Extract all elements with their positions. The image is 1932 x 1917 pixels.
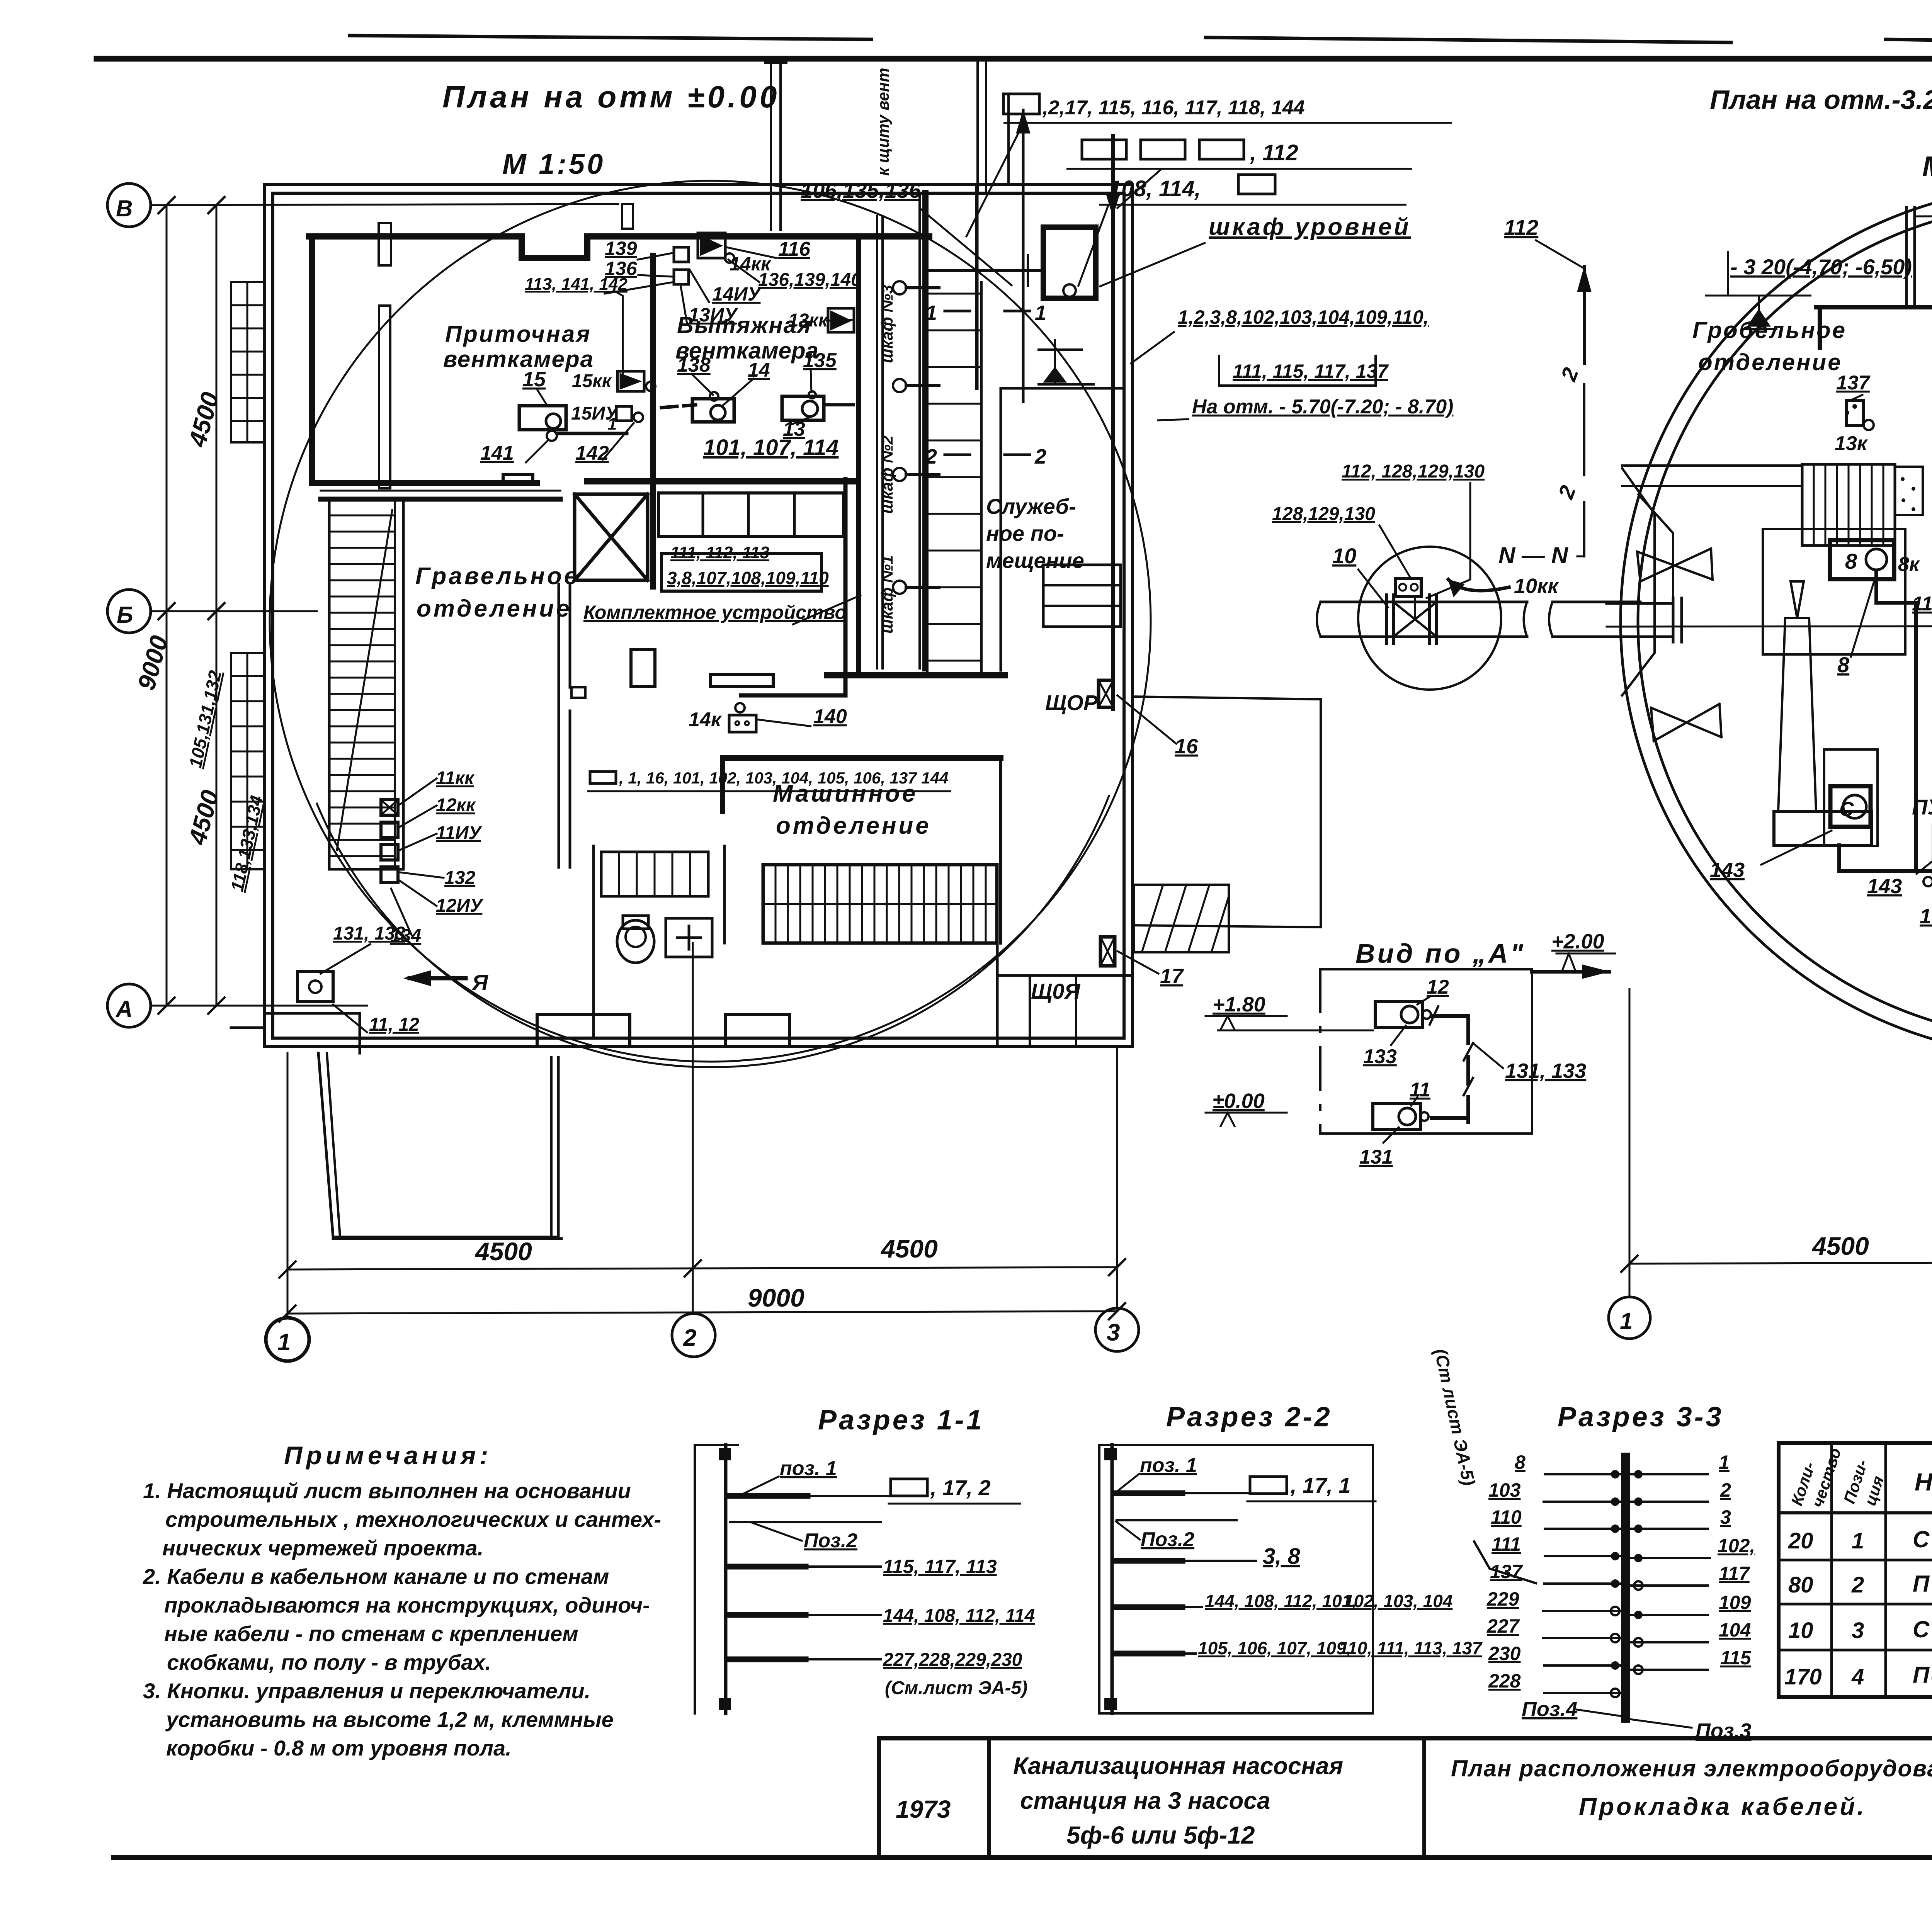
leader 131,133 [1473, 1043, 1503, 1068]
svg-text:+1.80: +1.80 [1213, 993, 1265, 1016]
svg-text:13кк: 13кк [788, 310, 829, 331]
svg-text:11кк: 11кк [436, 768, 475, 789]
svg-text:112: 112 [1504, 215, 1538, 240]
svg-text:Я: Я [471, 970, 488, 994]
svg-text:3. Кнопки. управления и перек: 3. Кнопки. управления и переключатели. [143, 1679, 590, 1703]
machine hall right wall [999, 758, 1002, 943]
svg-text:Полка: Полка [1913, 1571, 1932, 1597]
svg-text:110: 110 [1491, 1506, 1522, 1528]
svg-text:строительных , технологических: строительных , технологических и сантех- [165, 1507, 661, 1531]
lower device box view A [1373, 1103, 1420, 1130]
wall stub right of X opening [650, 479, 656, 586]
right plan outer ring [1621, 185, 1932, 1057]
svg-text:115: 115 [1720, 1647, 1752, 1669]
sink with cross [666, 918, 712, 957]
section mark 2-2 [945, 454, 970, 456]
svg-text:1: 1 [1620, 1308, 1633, 1334]
svg-text:11, 12: 11, 12 [369, 1015, 419, 1035]
svg-text:15кк: 15кк [572, 371, 612, 391]
switchgear cell band [658, 493, 844, 537]
axis line Б left [151, 610, 317, 612]
device 13К right plan [1847, 400, 1864, 425]
underground tank circle overlay [270, 181, 1151, 1062]
left plan outer wall [264, 185, 1133, 1047]
underground tank inner ring arc [317, 796, 1109, 1067]
svg-text:2: 2 [1720, 1479, 1731, 1501]
column circle 2 left plan [672, 1314, 715, 1357]
leaders top cluster [638, 253, 672, 260]
svg-text:1: 1 [925, 301, 937, 325]
X-braced opening [575, 494, 648, 580]
svg-text:131: 131 [1359, 1146, 1393, 1168]
leader 16 to ЩОР [1117, 695, 1176, 744]
machine hall top wall [723, 758, 1001, 811]
section 2-2 walls [1098, 1445, 1100, 1713]
leaders left cluster [400, 778, 437, 804]
axis line В across right plan [1917, 215, 1932, 216]
svg-text:2: 2 [925, 445, 937, 468]
svg-text:N — N: N — N [1498, 542, 1569, 568]
svg-text:,2,17, 115, 116, 117, 118, 144: ,2,17, 115, 116, 117, 118, 144 [1042, 97, 1305, 119]
svg-text:4500: 4500 [1811, 1232, 1869, 1260]
svg-text:Приточная: Приточная [445, 321, 592, 347]
panel ЩОЯ [1100, 937, 1115, 966]
pipe walls right segment [1553, 602, 1640, 637]
inlet channel right plan [1622, 466, 1802, 486]
svg-text:14к: 14к [689, 709, 722, 731]
svg-text:110: 110 [1912, 593, 1932, 615]
cable from 8 [1876, 571, 1916, 871]
svg-text:116: 116 [778, 238, 811, 260]
device boxes on left wall cluster [381, 800, 398, 815]
section mark 1-1 [945, 310, 970, 313]
left lines 3-3 [1543, 1474, 1620, 1693]
svg-text:шкаф №3: шкаф №3 [878, 285, 896, 363]
svg-text:Стойка: Стойка [1913, 1616, 1932, 1642]
svg-text:109: 109 [1719, 1592, 1751, 1613]
svg-text:15: 15 [522, 368, 546, 391]
title block frame [879, 1736, 1932, 1740]
leaders 143 [1761, 831, 1832, 865]
leader 131 [1383, 1127, 1399, 1143]
svg-text:102, 103, 104: 102, 103, 104 [1344, 1591, 1452, 1611]
svg-text:Разрез 2-2: Разрез 2-2 [1166, 1402, 1332, 1433]
svg-text:138: 138 [677, 354, 711, 376]
svg-text:142: 142 [575, 442, 609, 464]
box symbol 2-2 [1250, 1477, 1287, 1494]
svg-text:131, 133: 131, 133 [333, 923, 405, 944]
cable from C [1839, 845, 1932, 871]
svg-text:Поз.2: Поз.2 [804, 1530, 857, 1552]
bottom cable list with box symbol [587, 772, 951, 791]
svg-text:ПУР: ПУР [1912, 795, 1932, 819]
leaders to valve detail [1379, 525, 1410, 576]
svg-text:111: 111 [1492, 1533, 1521, 1555]
0.00 level mark [1206, 1112, 1287, 1114]
corner device box 131,133 [298, 972, 333, 1002]
svg-text:Б: Б [117, 602, 133, 628]
axis circle А left [107, 984, 151, 1027]
svg-text:Поз.2: Поз.2 [1141, 1528, 1194, 1551]
svg-text:8: 8 [1837, 653, 1850, 677]
svg-text:113, 141, 142: 113, 141, 142 [525, 275, 628, 294]
table row lines [1779, 1511, 1932, 1514]
svg-text:103: 103 [1488, 1479, 1521, 1501]
svg-text:1. Настоящий лист выполнен: 1. Настоящий лист выполнен на основании [143, 1479, 631, 1503]
cabinet corridor wall [922, 193, 929, 668]
svg-text:140: 140 [813, 705, 847, 728]
svg-text:135: 135 [803, 349, 837, 372]
cable from unit 15 [558, 432, 627, 435]
svg-text:1: 1 [1852, 1528, 1864, 1553]
exhaust vent room right wall [856, 236, 861, 672]
svg-text:нических чертежей проекта.: нических чертежей проекта. [162, 1536, 483, 1560]
+1.80 level mark [1206, 1015, 1287, 1017]
svg-text:133: 133 [1363, 1045, 1397, 1068]
svg-text:шкаф №1: шкаф №1 [878, 555, 896, 634]
svg-text:1: 1 [1719, 1451, 1730, 1473]
svg-text:2: 2 [1034, 445, 1046, 468]
svg-text:112, 128,129,130: 112, 128,129,130 [1342, 461, 1485, 482]
svg-text:М 1:50: М 1:50 [1922, 151, 1932, 182]
leader 133 [1391, 1026, 1406, 1045]
fan unit 135 exhaust room [782, 396, 824, 420]
dim line 4500/4500 bottom right plan [1629, 1261, 1932, 1264]
pipe detail circle N-N [1358, 547, 1501, 690]
leaders vent room 1 [537, 389, 547, 405]
svg-text:3: 3 [1107, 1319, 1120, 1346]
svg-text:101, 107, 114: 101, 107, 114 [703, 435, 838, 460]
svg-text:Канализационная насосная: Канализационная насосная [1013, 1753, 1343, 1779]
comb shelf column right of corridor [926, 286, 929, 672]
riser pair x2000 above plan [765, 63, 786, 230]
svg-text:1973: 1973 [896, 1795, 951, 1823]
device small squares 14ИУ 13ИУ [674, 247, 689, 262]
three cable duct symbols [1066, 140, 1412, 169]
staircase gravel room [321, 490, 560, 492]
svg-text:1: 1 [607, 415, 617, 433]
table column lines [1832, 1443, 1932, 1697]
svg-text:2. Кабели в кабельном канале: 2. Кабели в кабельном канале и по стенам [143, 1564, 609, 1589]
equipment 8 box [1830, 540, 1894, 579]
door jamb stub [571, 687, 585, 698]
svg-text:144, 108, 112, 114: 144, 108, 112, 114 [883, 1606, 1035, 1626]
svg-text:8: 8 [1845, 549, 1857, 573]
cabinet corridor inner line [876, 216, 878, 668]
svg-text:Разрез 3-3: Разрез 3-3 [1558, 1402, 1724, 1433]
svg-text:Щ0Я: Щ0Я [1031, 979, 1081, 1003]
svg-text:80: 80 [1788, 1572, 1813, 1597]
section 3-3 central bar [1621, 1457, 1630, 1718]
svg-text:229: 229 [1486, 1588, 1519, 1610]
svg-text:4500: 4500 [474, 1237, 532, 1266]
fan unit 15 [519, 406, 566, 430]
duct pilaster in supply vent room [379, 223, 391, 265]
svg-text:План на отм.-3.20(-4.70;-6.2: План на отм.-3.20(-4.70;-6.20) и -5.70(-… [1710, 85, 1932, 115]
dim line 9000 bottom left plan [287, 1311, 1117, 1314]
svg-text:132: 132 [444, 868, 475, 888]
svg-text:9000: 9000 [748, 1283, 804, 1312]
svg-text:В: В [116, 195, 133, 221]
ventilation rooms bottom wall [312, 480, 537, 486]
svg-text:венткамера: венткамера [443, 346, 594, 372]
section cut line 1 vertical with arrow [1022, 110, 1025, 402]
svg-text:Поз.4: Поз.4 [1522, 1698, 1577, 1721]
svg-text:ЩОР: ЩОР [1045, 690, 1098, 715]
svg-text:227: 227 [1486, 1615, 1520, 1637]
dashed cable in exhaust room [662, 405, 696, 408]
svg-text:105, 106, 107, 109,: 105, 106, 107, 109, [1198, 1638, 1351, 1658]
service room wall [1000, 388, 1002, 670]
axis line А left [151, 1005, 367, 1007]
svg-text:104: 104 [1719, 1619, 1751, 1641]
svg-text:4500: 4500 [880, 1234, 938, 1263]
view direction arrow Я [410, 976, 466, 981]
svg-text:103: 103 [1920, 905, 1932, 928]
hatched walkway east [1134, 885, 1229, 952]
svg-text:230: 230 [1488, 1643, 1521, 1664]
axis circle В left [107, 184, 151, 227]
wide staircase machine hall [763, 865, 997, 943]
svg-text:Гравельное: Гравельное [415, 563, 580, 590]
switchgear lower box [662, 553, 821, 591]
svg-text:Стойка: Стойка [1913, 1526, 1932, 1552]
svg-text:2: 2 [683, 1325, 696, 1351]
panel ЩОР [1099, 680, 1113, 707]
svg-text:1,2,3,8,102,103,104,109,110,: 1,2,3,8,102,103,104,109,110, [1178, 306, 1429, 328]
svg-text:3: 3 [1852, 1618, 1864, 1643]
svg-text:4: 4 [1851, 1664, 1864, 1689]
svg-text:12кк: 12кк [436, 795, 476, 816]
svg-text:17: 17 [1160, 965, 1184, 988]
svg-text:137: 137 [1490, 1561, 1523, 1582]
device 15КК symbol [617, 371, 644, 391]
pipe flanges [1386, 595, 1437, 644]
svg-text:227,228,229,230: 227,228,229,230 [883, 1650, 1022, 1670]
dotted plate next to grate [1895, 467, 1923, 515]
svg-text:Комплектное устройство: Комплектное устройство [583, 602, 847, 623]
pipe walls left segment [1321, 602, 1527, 637]
section 1-1 cable rows [730, 1493, 808, 1499]
svg-text:11: 11 [1410, 1079, 1430, 1101]
svg-text:2: 2 [1851, 1572, 1864, 1597]
section 1-1 wall [694, 1445, 696, 1713]
svg-text:поз. 1: поз. 1 [1140, 1454, 1197, 1477]
svg-text:На отм. - 5.70(-7.20; - 8.70): На отм. - 5.70(-7.20; - 8.70) [1192, 396, 1453, 418]
fan unit 138 exhaust room [692, 399, 734, 422]
top cable bundle symbol box [1003, 94, 1452, 123]
curved arrow 10КК [1448, 580, 1509, 591]
column circle 3 left plan [1095, 1308, 1139, 1351]
leaders поз 2-2 [1115, 1474, 1139, 1493]
svg-text:115, 117, 113: 115, 117, 113 [883, 1556, 997, 1577]
device 14КК symbol top [698, 233, 725, 258]
svg-text:108, 114,: 108, 114, [1109, 176, 1201, 201]
svg-text:ное по-: ное по- [986, 521, 1064, 546]
svg-text:к щиту вент: к щиту вент [874, 68, 892, 176]
box symbol row A [891, 1479, 927, 1496]
cable run bottom corridor [739, 477, 845, 695]
svg-text:143: 143 [1710, 858, 1745, 882]
svg-text:Подвеска закладная: Подвеска закладная [1913, 1662, 1932, 1688]
sheet frame: top border [97, 56, 1932, 62]
svg-text:скобками, по полу - в трубах: скобками, по полу - в трубах. [167, 1650, 491, 1674]
wall between supply and exhaust vent rooms [650, 256, 656, 483]
svg-text:13ИУ: 13ИУ [689, 304, 739, 326]
svg-text:16: 16 [1175, 735, 1198, 758]
svg-text:отделение: отделение [1698, 349, 1842, 375]
annex rectangle east of plan [1133, 697, 1321, 927]
svg-text:12ИУ: 12ИУ [436, 896, 484, 916]
leader 12 [1417, 997, 1430, 1004]
svg-text:1: 1 [277, 1329, 291, 1356]
X brace lower [1651, 704, 1721, 741]
pit below building [318, 1053, 558, 1237]
svg-text:План расположения электрообо: План расположения электрооборудования. [1451, 1756, 1932, 1781]
svg-text:, 17, 1: , 17, 1 [1290, 1473, 1351, 1497]
svg-text:136,139,140: 136,139,140 [758, 270, 861, 290]
dimension line 9000 vertical [166, 205, 168, 1006]
pipe entry left of circle at N-N level [1607, 603, 1673, 637]
leaders from top labels into plan [919, 124, 1206, 287]
svg-text:111, 115, 117, 137: 111, 115, 117, 137 [1233, 360, 1389, 382]
svg-text:8к: 8к [1898, 553, 1920, 576]
service room upper-left wall [975, 185, 979, 388]
device 15ИУ symbol [616, 406, 632, 421]
svg-text:Вид по „А": Вид по „А" [1355, 938, 1526, 969]
equipment C group [1824, 749, 1878, 846]
svg-text:Наименование: Наименование [1915, 1468, 1932, 1496]
svg-text:ные кабели - по стенам с кр: ные кабели - по стенам с креплением [164, 1621, 578, 1646]
wall notches at bottom wall [537, 1015, 630, 1047]
svg-text:поз. 1: поз. 1 [780, 1457, 837, 1480]
column circle 1 left plan [266, 1318, 309, 1361]
section 2-2 cable rows [1117, 1490, 1182, 1496]
bracket leader from rotated note [1474, 1541, 1536, 1583]
svg-text:(См.лист ЭА-5): (См.лист ЭА-5) [885, 1678, 1027, 1698]
svg-text:3, 8: 3, 8 [1263, 1544, 1300, 1569]
svg-text:Примечания:: Примечания: [284, 1441, 492, 1470]
leaders поз [739, 1477, 779, 1496]
svg-text:14: 14 [748, 359, 770, 381]
ventilation rooms top wall with notch [309, 236, 929, 258]
dimension line 4500/4500 vertical [216, 205, 218, 1006]
svg-text:143: 143 [1867, 875, 1902, 898]
svg-text:Прокладка кабелей.: Прокладка кабелей. [1579, 1793, 1866, 1820]
svg-text:137: 137 [1836, 372, 1871, 394]
svg-text:110, 111, 113, 137: 110, 111, 113, 137 [1339, 1638, 1483, 1658]
X brace upper [1637, 549, 1713, 581]
small cabinet rects switchgear area [631, 649, 773, 687]
svg-text:144, 108, 112, 101,: 144, 108, 112, 101, [1205, 1591, 1357, 1611]
left plan bottom axis lines [266, 943, 1139, 1361]
ventilation rooms left wall [309, 236, 315, 483]
right plan bottom axis verticals [1609, 989, 1932, 1340]
grate box hatched [1802, 464, 1895, 546]
svg-text:11ИУ: 11ИУ [436, 823, 482, 843]
leaders exhaust room [692, 374, 713, 395]
small stair near WC [601, 852, 708, 896]
leader 17 to ЩОЯ [1117, 951, 1158, 974]
service room stair [1043, 565, 1121, 627]
svg-text:10: 10 [1788, 1618, 1813, 1643]
axis line В left [151, 204, 618, 205]
dim line 4500/4500 bottom left plan [287, 1267, 1117, 1270]
ladder hatch band outside left wall upper [231, 282, 264, 442]
upper chamber wall [1816, 305, 1932, 309]
svg-text:111, 112, 113: 111, 112, 113 [670, 543, 769, 562]
svg-text:106,135,136: 106,135,136 [801, 178, 921, 202]
svg-text:М 1:50: М 1:50 [502, 148, 605, 180]
bottom right rooms [996, 943, 999, 1047]
elevation mark +0.600 [1054, 340, 1056, 382]
right lines 3-3 [1631, 1474, 1710, 1670]
svg-text:прокладываются на конструкци: прокладываются на конструкциях, одиноч- [164, 1593, 650, 1617]
trash cone [1791, 581, 1804, 618]
device 13КК symbol [828, 308, 854, 332]
svg-text:шкаф №2: шкаф №2 [878, 435, 896, 514]
svg-text:А: А [115, 996, 133, 1022]
svg-text:Разрез 1-1: Разрез 1-1 [818, 1405, 984, 1436]
pilaster stub top wall [622, 204, 633, 229]
svg-text:отделение: отделение [417, 595, 572, 622]
svg-text:станция на 3 насоса: станция на 3 насоса [1020, 1788, 1270, 1814]
svg-text:, 1, 16, 101, 102, 103, 104, 1: , 1, 16, 101, 102, 103, 104, 105, 106, 1… [619, 769, 948, 787]
svg-text:3: 3 [1720, 1506, 1731, 1528]
svg-text:12: 12 [1427, 976, 1449, 998]
svg-text:20: 20 [1788, 1528, 1813, 1553]
svg-text:установить на высоте 1,2 м: установить на высоте 1,2 м, клеммные [165, 1707, 614, 1732]
view A frame [1320, 968, 1532, 970]
svg-text:128,129,130: 128,129,130 [1272, 504, 1375, 524]
valve actuator box [1396, 579, 1421, 597]
leader 11 [1411, 1097, 1417, 1106]
corridor node circles [893, 281, 906, 294]
wall between gravel room and switchgear area [558, 584, 560, 867]
svg-text:коробки - 0.8 м от уровня: коробки - 0.8 м от уровня пола. [166, 1736, 512, 1760]
upper device box view A [1375, 1001, 1423, 1028]
channel chamber walls [1622, 468, 1655, 695]
svg-text:отделение: отделение [776, 812, 931, 839]
svg-text:±0.00: ±0.00 [1213, 1089, 1265, 1113]
svg-text:141: 141 [480, 442, 514, 464]
leaders поз 3-3 [1577, 1710, 1621, 1716]
WC room walls [592, 846, 595, 1038]
svg-text:139: 139 [605, 238, 637, 259]
table frame [1779, 1443, 1932, 1697]
svg-text:8: 8 [1515, 1451, 1526, 1473]
svg-text:10кк: 10кк [1514, 574, 1559, 598]
svg-text:5ф-6 или 5ф-12: 5ф-6 или 5ф-12 [1066, 1821, 1255, 1849]
svg-text:170: 170 [1784, 1664, 1822, 1689]
corner step bottom-left [231, 1013, 360, 1053]
cable risers above plan [1007, 95, 1010, 185]
svg-text:117: 117 [1719, 1563, 1750, 1584]
svg-text:С: С [1839, 798, 1854, 821]
svg-text:13к: 13к [1835, 432, 1868, 455]
main cable riser to ЩОР [1111, 136, 1115, 709]
svg-text:+2.00: +2.00 [1551, 930, 1604, 953]
corridor bottom wall [827, 672, 1005, 678]
svg-text:228: 228 [1488, 1670, 1521, 1692]
leader from switchgear label [792, 595, 861, 625]
ladder hatch band outside left wall lower [231, 653, 264, 869]
column circle 1 right plan [1609, 1297, 1650, 1339]
axis circle Б left [107, 590, 151, 633]
valve bowtie [1393, 602, 1437, 637]
svg-text:14ИУ: 14ИУ [712, 283, 762, 305]
svg-text:шкаф уровней: шкаф уровней [1209, 214, 1411, 240]
